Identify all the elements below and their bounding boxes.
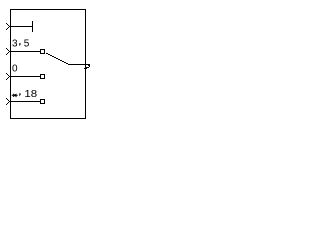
pin marker X at throw terminal 4 [6,98,10,105]
contact box of throw 2 [41,50,45,54]
switch S1 body outline (common rail frame) [11,10,86,119]
pin marker X at throw terminal 3 [6,73,10,80]
wire: throw 2 stub [11,51,40,53]
label asterisk of "*, 18" for throw 4 [12,94,18,97]
wiper arrowhead at common rail [84,65,90,69]
wiper arm (diagonal from throw 2 contact) [46,53,68,64]
label ", 18" text for throw 4 [19,93,20,96]
wire: throw 4 stub [11,101,40,103]
pin marker X at throw terminal 2 [6,48,10,55]
svg-text:3: 3 [12,39,18,50]
contact box of throw 3 [41,75,45,79]
wire: throw 3 stub [11,76,40,78]
svg-text:18: 18 [24,89,37,100]
wire: throw 1 stub [11,26,32,28]
svg-text:5: 5 [24,39,30,50]
svg-text:0: 0 [12,64,18,75]
pin marker X at throw terminal 1 [6,23,10,30]
contact box of throw 4 [41,100,45,104]
wire: wiper horizontal run to common rail [68,64,90,66]
open-terminal end bar of throw 1 [32,21,34,32]
